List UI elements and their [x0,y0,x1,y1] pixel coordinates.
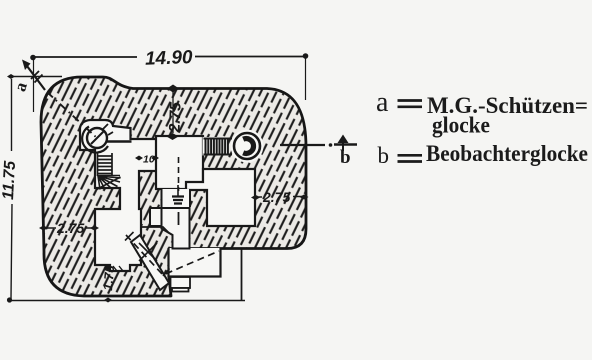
dimension 1.75 (bottom left, vertical) [100,264,117,291]
entrance room [169,248,221,277]
bunker body (hatched mass) [41,77,306,296]
white room: top-center room [156,136,203,189]
gun mount in shaft [162,185,190,249]
white room: right room with notch [186,169,255,226]
stairs-to-b white band [203,137,229,156]
sight line b (dash-dot with arrow) [280,135,357,169]
niche left of shaft [150,208,162,226]
dimension 11.75 [0,74,62,299]
door tick at entrance room corner [163,269,170,277]
dimension 14.90 [30,47,308,112]
X door mark in slot [139,243,157,261]
circle b (observer bell) [234,133,260,159]
dimension 10 (neck) [135,154,159,166]
dimension 2.75 (right) [251,189,309,205]
svg-text:Beobachterglocke: Beobachterglocke [426,141,588,166]
svg-text:b: b [378,143,390,168]
stairs comb to b [204,139,233,155]
dimension 2.75 (left) [39,220,99,236]
svg-text:2.75: 2.75 [166,102,184,134]
svg-text:10: 10 [143,154,155,166]
svg-text:glocke: glocke [432,113,490,138]
door tick in lower-left room [125,232,134,241]
sight line a (dash-dot) [10,60,97,139]
circle a (MG bell) [82,124,131,153]
svg-text:1.75: 1.75 [100,264,117,291]
svg-text:14.90: 14.90 [145,47,194,70]
fan steps [97,176,121,190]
bottom extent line [9,300,245,302]
circle b clearance [231,130,264,163]
dashed axis above mount [178,157,180,191]
white room: left suite (circle a clearance + stair room + lower room) [80,120,157,271]
svg-text:2.75: 2.75 [56,220,84,236]
block A chamfer lines [141,227,169,233]
svg-text:2.75: 2.75 [262,189,290,205]
shaft channel [162,189,191,208]
diagonal entrance slot [131,235,169,290]
ladder below circle a [97,153,112,176]
svg-text:b: b [340,147,351,168]
court outline [241,249,243,301]
dashed walking path [126,235,219,275]
notch ticks in lower-left room doorway [113,266,123,271]
small box below entrance [171,277,191,288]
legend text [376,87,588,168]
dimension 2.75 (top, vertical) [166,85,184,141]
svg-text:a: a [376,87,389,118]
svg-text:11.75: 11.75 [0,159,19,200]
